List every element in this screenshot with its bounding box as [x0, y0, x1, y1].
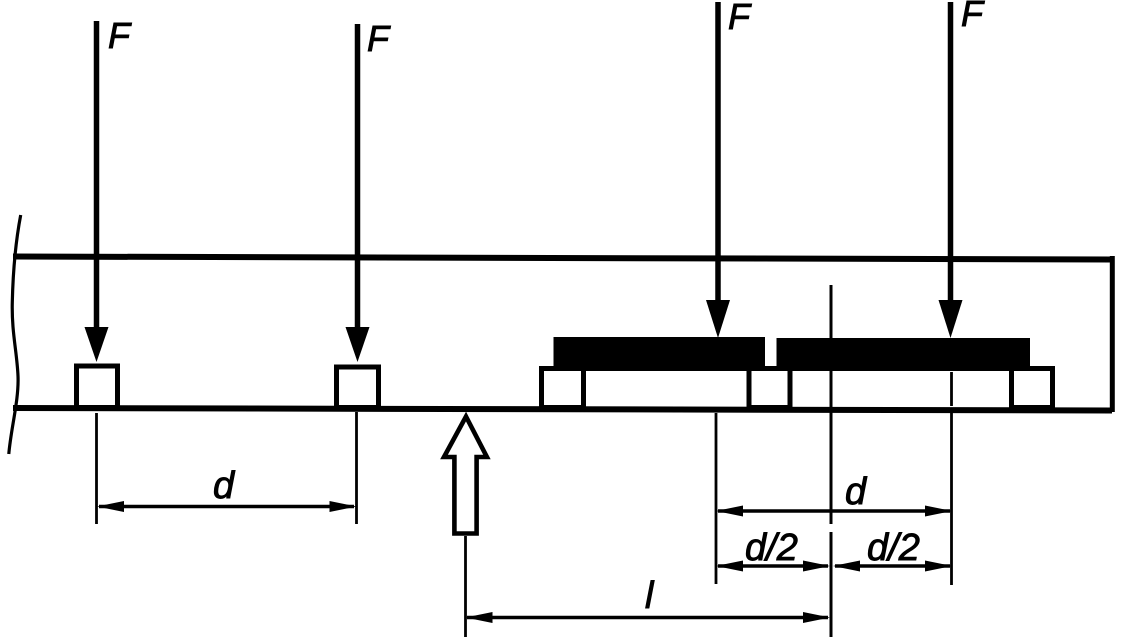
svg-text:d/2: d/2: [867, 527, 920, 569]
dimension l: [466, 612, 831, 623]
svg-text:F: F: [961, 0, 985, 34]
dimension d right: [716, 506, 952, 517]
svg-text:d: d: [845, 471, 868, 513]
force arrow F2: [346, 24, 370, 362]
dimension d/2 left: [716, 561, 830, 572]
dimension d left: [97, 501, 357, 512]
centerline: [830, 285, 833, 637]
svg-text:d: d: [213, 465, 236, 507]
extension line below reaction arrow: [464, 536, 467, 637]
beam top edge: [13, 257, 1112, 260]
force arrow F4: [939, 2, 963, 338]
support block S2: [749, 369, 790, 408]
beam right edge: [1110, 256, 1115, 412]
svg-text:F: F: [728, 0, 752, 37]
support block S1: [542, 369, 584, 408]
friction bar left (black): [554, 337, 766, 371]
dimension d/2 right: [833, 561, 952, 572]
svg-text:F: F: [367, 18, 391, 59]
force arrow F1: [85, 21, 109, 362]
reaction arrow (hollow, upward): [444, 417, 487, 534]
extension line below F4: [950, 372, 953, 585]
svg-text:d/2: d/2: [745, 527, 798, 569]
svg-text:l: l: [645, 575, 655, 617]
svg-text:F: F: [108, 15, 132, 56]
extension line below F2: [355, 412, 358, 524]
support block S3: [1012, 369, 1053, 408]
force arrow F3: [706, 2, 730, 338]
extension line below F3: [715, 413, 718, 584]
support block B1: [77, 366, 118, 408]
wavy break line (left edge of beam): [9, 215, 21, 454]
beam bottom edge: [13, 408, 1112, 411]
support block B2: [337, 367, 379, 408]
extension line below F1: [95, 413, 98, 524]
friction bar right (black): [777, 338, 1031, 371]
